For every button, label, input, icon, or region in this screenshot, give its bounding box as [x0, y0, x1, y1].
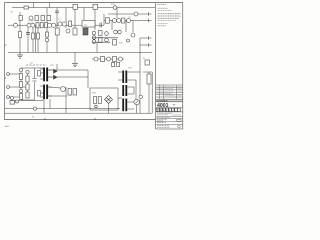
- svg-text:B0-1: B0-1: [5, 126, 10, 128]
- svg-text:PRESALE: PRESALE: [157, 108, 176, 112]
- svg-text:4001: 4001: [157, 103, 169, 109]
- svg-text:C4 R7: C4 R7: [28, 21, 35, 23]
- svg-text:PSU: PSU: [92, 93, 97, 95]
